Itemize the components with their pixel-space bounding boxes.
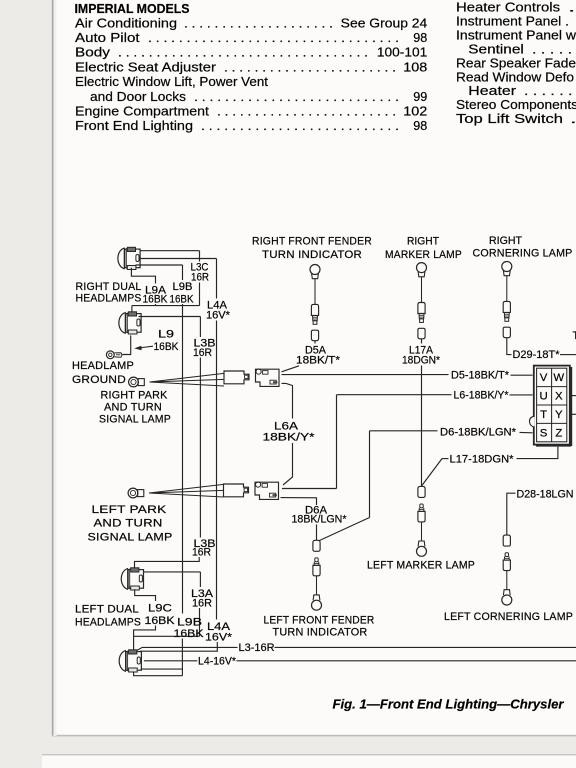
wire L17A vertical down to left marker lamp: [421, 366, 423, 487]
svg-text:. . . . . . . . . . . . . . .: . . . . . . . . . . . . . . . . . . . . …: [224, 60, 396, 74]
wire L9A stub below label: [155, 304, 157, 306]
svg-text:. . . . . . . . . . . . . . .: . . . . . . . . . . . . . . . . . . . . …: [217, 105, 396, 119]
headlamp left inner — LEFT DUAL HEADLAMPS upper: [121, 568, 143, 590]
wire L17 from pin Z: [517, 447, 558, 459]
connector left park/turn lamp: [224, 482, 279, 499]
bulb right front fender turn indicator: [310, 265, 320, 341]
wire L9C elbow from left inner headlamp: [135, 589, 156, 601]
bulb left front fender turn indicator: [312, 540, 322, 610]
svg-text:16R: 16R: [192, 598, 212, 610]
svg-text:. . . . . . . .: . . . . . . . .: [524, 84, 576, 98]
svg-text:16BK: 16BK: [174, 628, 204, 640]
svg-text:AND TURN: AND TURN: [104, 402, 162, 414]
wire ground bottom tab horizontal: [141, 668, 183, 670]
svg-text:L17-18DGN*: L17-18DGN*: [450, 454, 514, 466]
bulb left cornering lamp: [502, 535, 512, 605]
svg-text:See Group 24: See Group 24: [341, 16, 428, 30]
svg-text:RIGHT: RIGHT: [407, 236, 440, 248]
wire L9 ground from outer headlamp to ring terminal: [122, 335, 130, 354]
svg-text:16V*: 16V*: [206, 310, 230, 322]
svg-text:Instrument Panel .: Instrument Panel .: [456, 14, 569, 28]
svg-text:LEFT PARK: LEFT PARK: [92, 504, 167, 516]
ring terminal headlamp ground: [106, 351, 114, 359]
wire L3A horizontal from left inner headlamp: [144, 571, 200, 573]
svg-text:D5-18BK/T*: D5-18BK/T*: [451, 370, 509, 382]
wire L3A vertical above label: [199, 572, 201, 587]
svg-text:D6-18BK/LGN*: D6-18BK/LGN*: [440, 426, 516, 438]
svg-text:Instrument Panel w: Instrument Panel w: [456, 28, 576, 42]
wire L4A elbow into left outer headlamp: [140, 642, 217, 651]
wire L9B vertical above label: [182, 265, 184, 280]
wire L3C vertical below label: [199, 283, 201, 306]
wire L17 stub left of label: [442, 458, 449, 460]
svg-text:RIGHT PARK: RIGHT PARK: [101, 390, 168, 402]
headlamp right inner (high beam) — RIGHT DUAL HEADLAMPS upper: [118, 247, 140, 269]
wire L3C horizontal from inner headlamp: [141, 250, 200, 252]
svg-text:S: S: [540, 427, 548, 439]
svg-text:IMPERIAL MODELS: IMPERIAL MODELS: [75, 1, 190, 16]
svg-text:L9B: L9B: [177, 617, 202, 629]
wire L6 into pin U: [510, 394, 533, 396]
svg-text:. . . . . . . . . . . . . . .: . . . . . . . . . . . . . . . . . . . . …: [201, 119, 399, 133]
svg-text:Air Conditioning: Air Conditioning: [75, 16, 177, 30]
wire D5 into pin V: [511, 374, 533, 376]
svg-text:18DGN*: 18DGN*: [402, 355, 440, 367]
wire D6 vertical: [369, 431, 371, 518]
wire from pin X to page edge: [569, 395, 576, 397]
bulb right marker lamp: [417, 263, 427, 339]
wire L3B vertical above label: [199, 317, 201, 338]
svg-text:RIGHT DUAL: RIGHT DUAL: [76, 281, 142, 293]
wire D6 diagonal to left fender indicator: [319, 518, 369, 541]
wire D6 into pin S: [520, 431, 533, 433]
svg-text:16R: 16R: [192, 547, 211, 559]
wire L6 vertical: [336, 395, 338, 489]
svg-text:D29-18T*: D29-18T*: [513, 349, 560, 361]
svg-text:108: 108: [403, 60, 427, 74]
wire D6 horizontal to label: [370, 430, 438, 432]
wire D6A elbow from left connector: [281, 498, 317, 505]
svg-text:SIGNAL LAMP: SIGNAL LAMP: [99, 414, 171, 426]
svg-text:T: T: [573, 330, 576, 342]
svg-text:RIGHT: RIGHT: [489, 235, 523, 247]
svg-text:16R: 16R: [191, 272, 209, 284]
svg-text:16V*: 16V*: [205, 632, 232, 644]
svg-text:LEFT MARKER LAMP: LEFT MARKER LAMP: [367, 560, 475, 572]
svg-text:TURN INDICATOR: TURN INDICATOR: [273, 627, 368, 639]
wire D28 elbow from left cornering lamp: [507, 493, 516, 535]
wire D29 elbow: [507, 338, 512, 355]
wire L9A elbow from inner headlamp ground tab: [131, 268, 155, 284]
svg-text:X: X: [555, 391, 563, 403]
svg-text:. . . . . . .: . . . . . . .: [532, 42, 576, 56]
wire L3C vertical above label: [199, 251, 201, 262]
svg-text:L9C: L9C: [148, 603, 172, 615]
wire L6 horizontal from left connector: [282, 488, 337, 490]
wire L6A from connector down: [282, 383, 293, 418]
svg-text:Heater: Heater: [468, 84, 516, 98]
wire L4 from left outer headlamp: [144, 660, 197, 662]
wire D5A stub to label: [314, 341, 316, 344]
wire D29-18T* to page edge: [560, 354, 576, 356]
wire L3A horizontal to left outer headlamp: [134, 635, 200, 637]
svg-text:98: 98: [413, 119, 427, 133]
svg-text:D28-18LGN: D28-18LGN: [517, 489, 574, 501]
svg-text:LEFT CORNERING LAMP: LEFT CORNERING LAMP: [444, 611, 573, 623]
wire L4A vertical above label: [216, 259, 218, 299]
svg-text:Electric Seat Adjuster: Electric Seat Adjuster: [75, 60, 216, 74]
svg-text:. .: . .: [570, 112, 576, 126]
wire L17A stub above label: [421, 339, 423, 344]
svg-text:Engine Compartment: Engine Compartment: [75, 105, 210, 119]
svg-text:T: T: [540, 409, 547, 421]
svg-text:MARKER LAMP: MARKER LAMP: [385, 249, 462, 261]
svg-text:HEADLAMPS: HEADLAMPS: [76, 293, 142, 305]
svg-text:16BK: 16BK: [145, 615, 175, 627]
svg-text:Top Lift Switch: Top Lift Switch: [456, 112, 563, 126]
svg-text:HEADLAMPS: HEADLAMPS: [75, 617, 141, 629]
wire ground bottom loop: [134, 672, 183, 676]
wire vertical into outer headlamp top tab: [131, 306, 133, 313]
svg-text:100-101: 100-101: [377, 46, 427, 60]
svg-text:16R: 16R: [193, 347, 212, 359]
wire L3B trunk vertical: [199, 358, 201, 538]
svg-text:. . . . . . . . . . . . . . .: . . . . . . . . . . . . . . . . . . . . …: [148, 31, 399, 45]
wire L4A trunk vertical: [216, 321, 218, 620]
svg-text:V: V: [540, 372, 548, 384]
svg-text:Body: Body: [75, 46, 111, 60]
svg-text:16BK: 16BK: [143, 294, 168, 306]
svg-text:CORNERING LAMP: CORNERING LAMP: [473, 248, 573, 260]
svg-text:LEFT FRONT FENDER: LEFT FRONT FENDER: [264, 615, 375, 627]
wire L3-16R to page edge: [275, 646, 576, 648]
wire L9B trunk vertical: [182, 304, 184, 614]
svg-text:Read Window Defo: Read Window Defo: [456, 70, 574, 84]
svg-text:Heater Controls: Heater Controls: [456, 1, 560, 15]
svg-text:GROUND: GROUND: [72, 374, 126, 386]
svg-text:18BK/Y*: 18BK/Y*: [263, 432, 315, 444]
wire L6 horizontal to label: [337, 394, 452, 396]
svg-text:L6-18BK/Y*: L6-18BK/Y*: [454, 390, 509, 402]
svg-text:TURN INDICATOR: TURN INDICATOR: [262, 249, 362, 261]
svg-text:L9B: L9B: [173, 281, 193, 293]
svg-text:Fig. 1—Front End Lighting—Chry: Fig. 1—Front End Lighting—Chrysler: [333, 697, 565, 712]
svg-text:. . . . . . . . . . . . . . .: . . . . . . . . . . . . . . . . . . . . …: [118, 46, 368, 60]
wire jog horizontal to outer headlamp top tab: [132, 305, 200, 307]
svg-text:Z: Z: [555, 427, 562, 439]
wire L17 diagonal to left marker lamp: [422, 459, 442, 486]
bulb left marker lamp: [417, 486, 427, 556]
svg-text:W: W: [553, 372, 564, 384]
wire L9B vertical to bottom loop: [181, 639, 183, 676]
svg-text:. . . . . . . . . . . . . . .: . . . . . . . . . . . . . . . . . . . .: [184, 16, 333, 30]
svg-text:98: 98: [413, 31, 427, 45]
svg-text:Stereo Components: Stereo Components: [456, 98, 576, 112]
svg-text:102: 102: [403, 105, 427, 119]
svg-text:Auto Pilot: Auto Pilot: [75, 31, 140, 45]
wire L6A below label down to left connector: [283, 443, 293, 485]
svg-text:16BK: 16BK: [170, 294, 194, 306]
svg-text:RIGHT FRONT FENDER: RIGHT FRONT FENDER: [252, 236, 372, 248]
svg-text:Rear Speaker Fade: Rear Speaker Fade: [456, 56, 576, 70]
headlamp left outer — LEFT DUAL HEADLAMPS lower: [119, 650, 141, 672]
svg-text:Front End Lighting: Front End Lighting: [75, 119, 193, 133]
svg-text:18BK/LGN*: 18BK/LGN*: [292, 514, 347, 526]
wire D5 horizontal from connector: [282, 374, 449, 376]
right park/turn lamp grommet + wire pair (headlamp ground): [129, 373, 224, 387]
wire D6A below label to bullet: [316, 525, 318, 541]
wire L3B horizontal from outer headlamp: [139, 316, 201, 318]
svg-text:Electric Window Lift, Power Ve: Electric Window Lift, Power Vent: [75, 75, 269, 89]
svg-text:18BK/T*: 18BK/T*: [296, 355, 340, 367]
wire L3 from left outer headlamp to label: [137, 647, 237, 650]
svg-text:16BK: 16BK: [154, 341, 179, 353]
svg-text:LEFT DUAL: LEFT DUAL: [75, 604, 139, 616]
wire D5A leader to connector: [282, 366, 300, 372]
wire L4A horizontal from inner headlamp: [139, 258, 217, 260]
svg-text:L4-16V*: L4-16V*: [198, 655, 236, 667]
svg-text:L9: L9: [158, 329, 174, 341]
svg-text:Sentinel: Sentinel: [468, 42, 524, 56]
svg-text:99: 99: [413, 90, 427, 104]
arrow from L9 16BK label to ground wire: [139, 346, 154, 348]
wire L3B elbow into left inner headlamp: [135, 557, 200, 568]
svg-text:HEADLAMP: HEADLAMP: [72, 360, 134, 372]
bulb right cornering lamp: [502, 262, 512, 338]
svg-text:SIGNAL LAMP: SIGNAL LAMP: [88, 532, 173, 544]
wire L9B horizontal from inner headlamp: [136, 264, 183, 266]
svg-text:AND TURN: AND TURN: [94, 518, 163, 530]
wire L9C elbow into left outer headlamp: [134, 626, 156, 651]
svg-text:U: U: [539, 391, 547, 403]
left park/turn lamp grommet + wire pair: [128, 484, 223, 498]
headlamp right outer — RIGHT DUAL HEADLAMPS lower: [119, 312, 141, 334]
svg-text:and Door Locks: and Door Locks: [90, 90, 186, 104]
svg-text:. . . . . . . . . . . . . . .: . . . . . . . . . . . . . . . . . . . . …: [194, 90, 399, 104]
page sheet 2 (next page peeking at bottom): [42, 755, 576, 768]
wire L4-16V* to page edge: [237, 660, 576, 662]
wire L3A vertical below label: [199, 608, 201, 636]
wire from pin Y to page edge: [569, 413, 576, 415]
svg-text:L3-16R: L3-16R: [239, 642, 275, 654]
svg-text:Y: Y: [555, 409, 563, 421]
connector right park/turn lamp: [224, 369, 279, 386]
connector block U1 (bulkhead disconnect V W / U X / T Y / S Z): [529, 366, 572, 447]
svg-text:. .: . .: [568, 1, 576, 15]
